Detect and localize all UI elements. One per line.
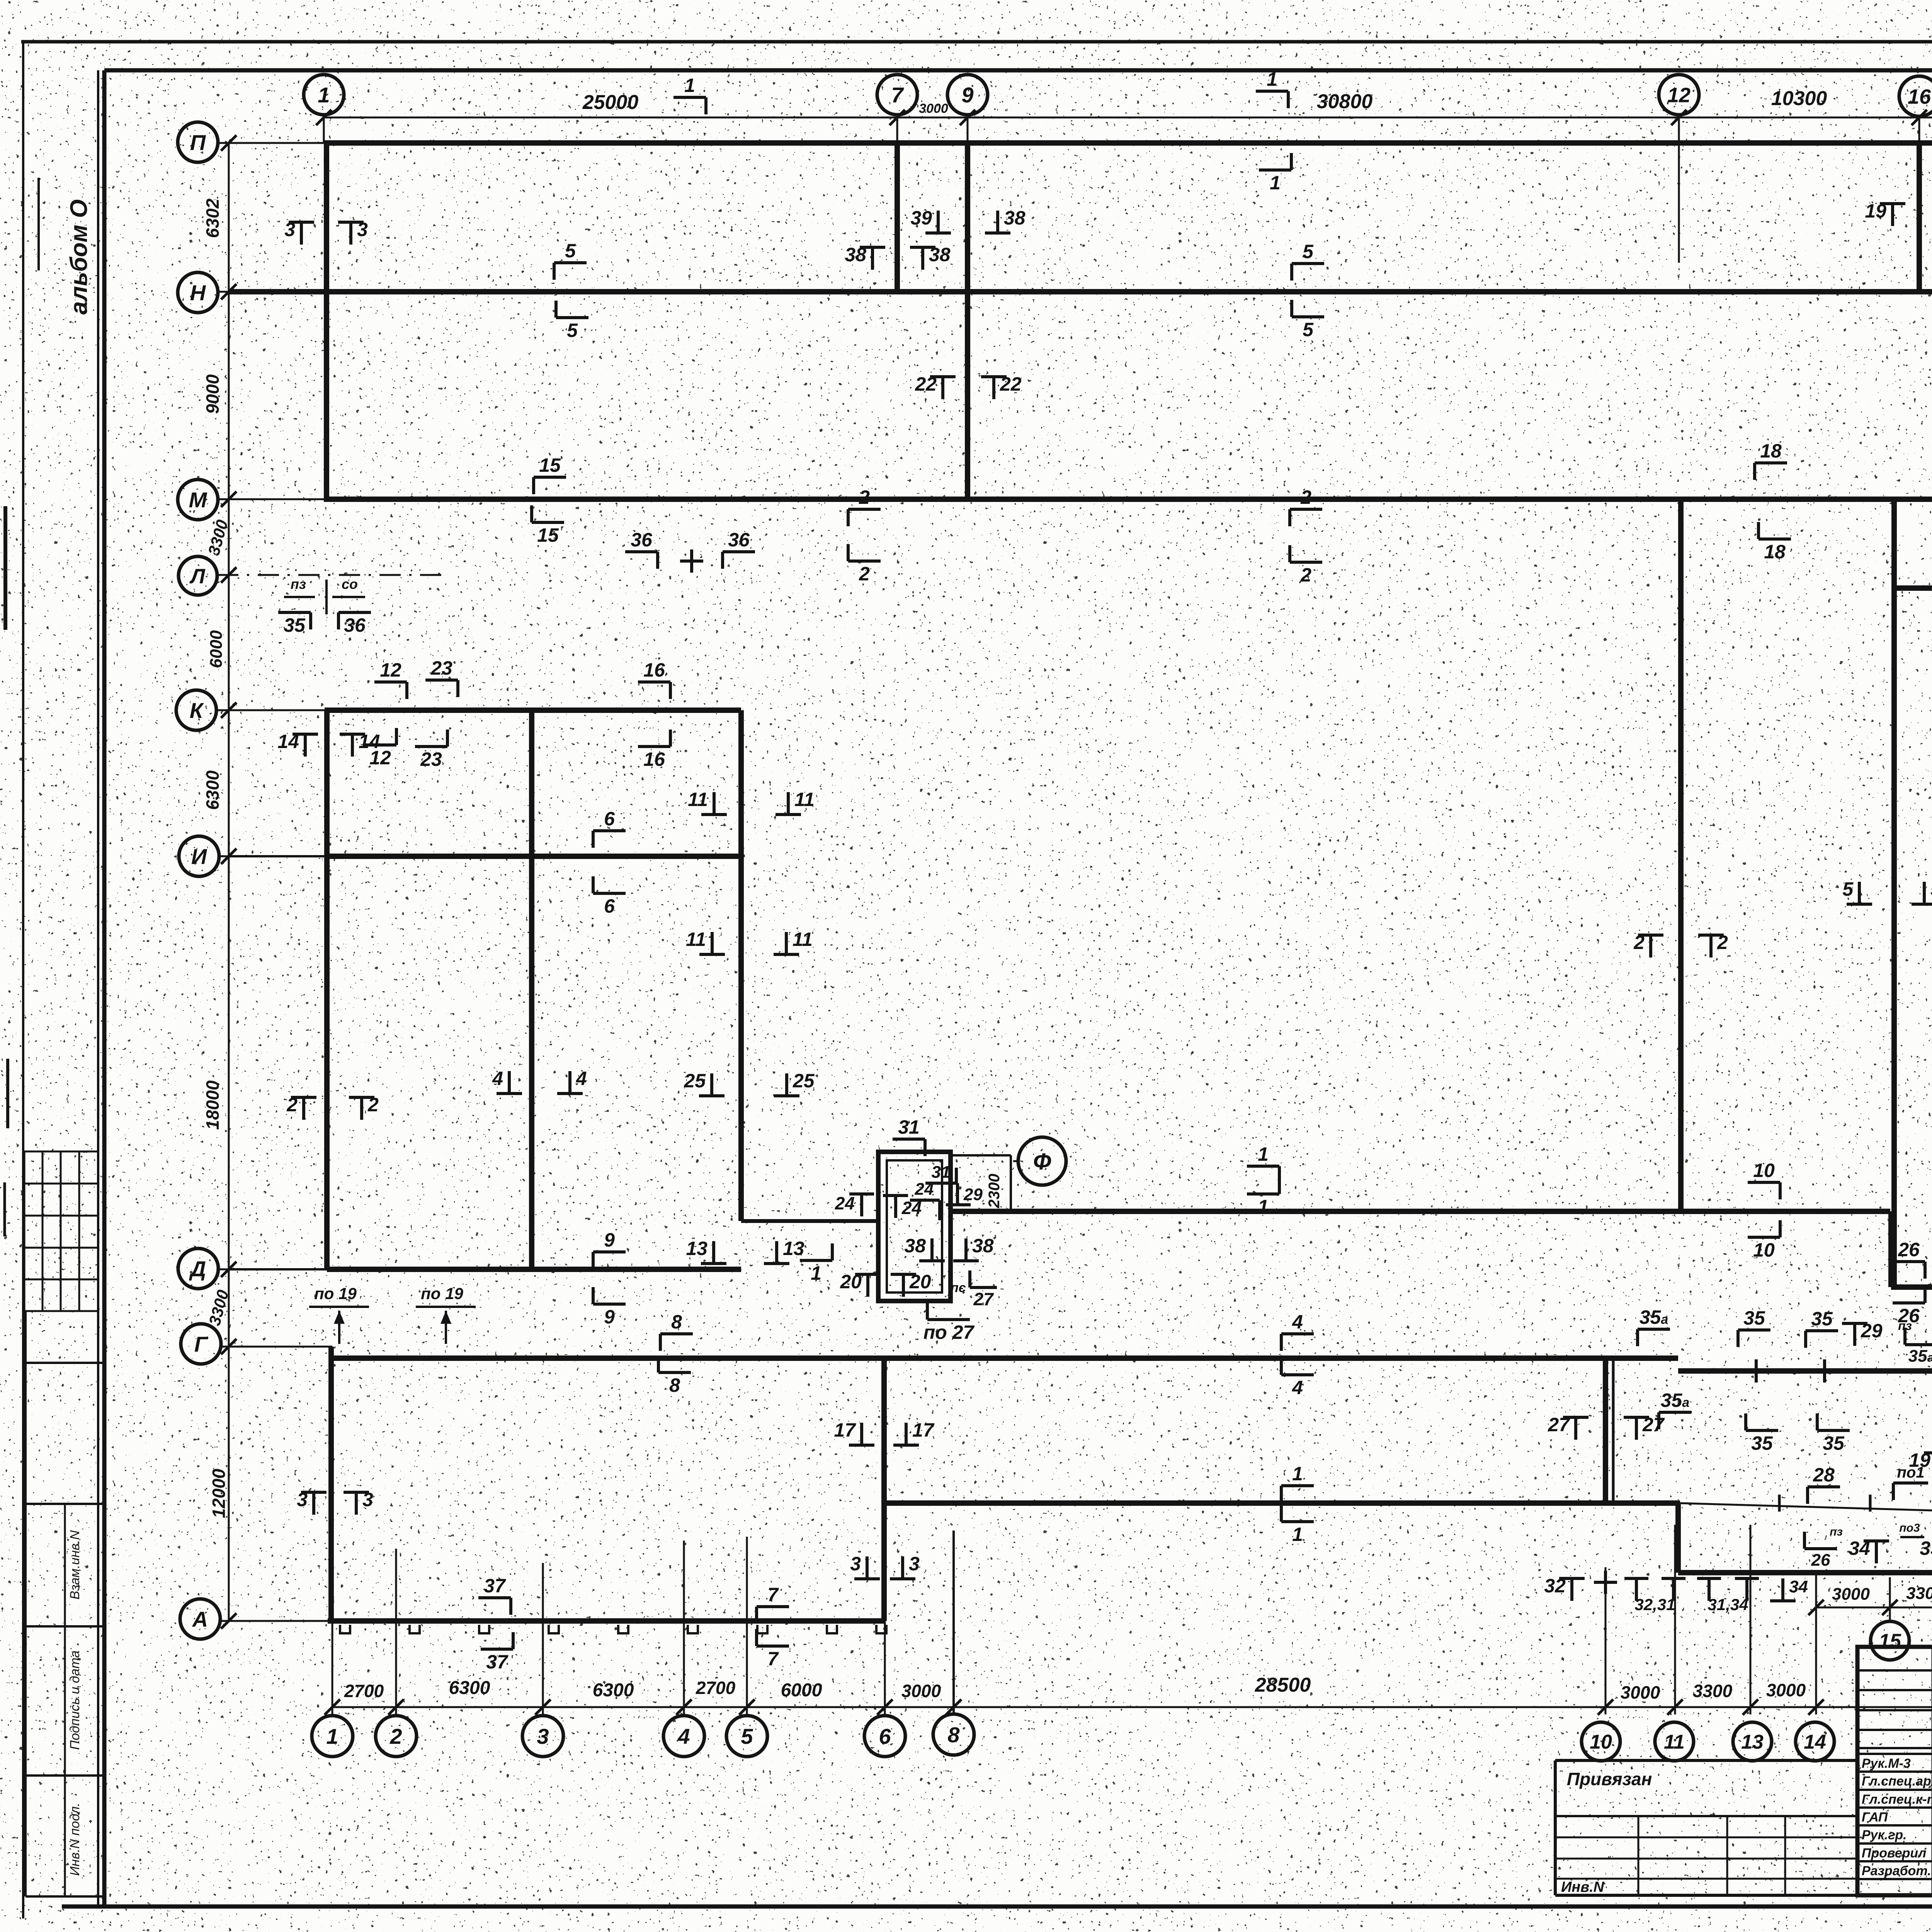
leader col 11 xyxy=(1674,1525,1676,1714)
svg-text:1: 1 xyxy=(1270,172,1281,194)
axis circle K left xyxy=(176,690,216,730)
svg-text:6000: 6000 xyxy=(781,1680,822,1701)
section pair 2 col12 xyxy=(1633,932,1663,957)
svg-text:38: 38 xyxy=(972,1235,994,1257)
section 37 above A xyxy=(478,1575,511,1615)
sheet top border xyxy=(21,40,1932,44)
section 8 below G left xyxy=(658,1355,691,1396)
section 29 pair xyxy=(1842,1320,1883,1346)
wall row N xyxy=(229,289,1932,294)
axis circle N left xyxy=(178,272,218,313)
svg-text:36: 36 xyxy=(728,529,750,551)
svg-text:20: 20 xyxy=(909,1271,931,1293)
svg-text:3300: 3300 xyxy=(1906,1584,1932,1603)
axis circle 12 top xyxy=(1659,75,1699,115)
svg-text:Взам.инв.N: Взам.инв.N xyxy=(68,1530,82,1600)
wall col 10 G-V xyxy=(1603,1358,1608,1503)
svg-text:31: 31 xyxy=(932,1163,951,1182)
section pair 25 x1918 xyxy=(684,1070,724,1096)
svg-text:17: 17 xyxy=(834,1419,856,1441)
svg-text:15: 15 xyxy=(1879,1630,1901,1653)
svg-text:3000: 3000 xyxy=(1621,1682,1660,1702)
svg-text:Гл.спец.к-т.: Гл.спец.к-т. xyxy=(1862,1792,1932,1807)
section cut 1 top (near 30800) xyxy=(1256,68,1288,108)
section 10 above E right xyxy=(1748,1160,1780,1199)
leader col 13 xyxy=(1750,1525,1752,1714)
svg-text:6302: 6302 xyxy=(202,198,223,238)
svg-text:3: 3 xyxy=(909,1553,920,1575)
svg-text:10: 10 xyxy=(1753,1239,1775,1261)
label по 27 below shaft xyxy=(923,1303,975,1343)
axis circle 6 bottom xyxy=(864,1716,905,1757)
svg-text:35: 35 xyxy=(284,614,306,636)
svg-text:17: 17 xyxy=(912,1419,935,1441)
section 31 inside shaft xyxy=(925,1163,956,1183)
svg-text:2700: 2700 xyxy=(696,1678,736,1698)
section 12 below K xyxy=(364,728,396,769)
svg-text:33: 33 xyxy=(1920,1537,1932,1559)
wall x1918 mid-block right xyxy=(738,710,744,1221)
svg-text:27: 27 xyxy=(1548,1414,1570,1435)
section 35/36 below L xyxy=(278,612,311,636)
section 19 near col18 xyxy=(1909,1449,1932,1475)
svg-text:3000: 3000 xyxy=(901,1681,941,1701)
svg-text:3: 3 xyxy=(362,1489,373,1510)
svg-text:4: 4 xyxy=(1292,1311,1303,1333)
axis circle 14 bottom xyxy=(1796,1722,1834,1761)
section 24 inside shaft xyxy=(910,1180,940,1220)
axis circle G left xyxy=(181,1324,221,1364)
section 1 above E xyxy=(1247,1143,1279,1183)
axis circle 11 bottom xyxy=(1655,1722,1694,1761)
wall col 1 lower xyxy=(328,1347,334,1621)
svg-text:Инв.N подл.: Инв.N подл. xyxy=(68,1803,82,1876)
shaft axis circle Ф xyxy=(1018,1137,1066,1185)
axis circle 13 bottom xyxy=(1733,1722,1772,1761)
wall jog at row E left xyxy=(741,1219,878,1223)
svg-text:Рук.гр.: Рук.гр. xyxy=(1862,1828,1907,1842)
svg-text:1: 1 xyxy=(684,75,695,96)
svg-text:2: 2 xyxy=(1300,564,1311,586)
section 34 single xyxy=(1770,1577,1808,1601)
wall row B xyxy=(1678,1570,1932,1575)
leader col 7 top xyxy=(896,115,898,143)
svg-text:38: 38 xyxy=(1004,207,1026,229)
svg-text:11: 11 xyxy=(688,789,708,810)
section 8 above G left xyxy=(660,1311,693,1351)
section pair 31,34 xyxy=(1697,1578,1759,1614)
svg-text:3: 3 xyxy=(297,1489,308,1510)
leader col 10 xyxy=(1605,1567,1607,1714)
wall col V-B connector xyxy=(1675,1503,1681,1573)
svg-text:Привязан: Привязан xyxy=(1567,1769,1652,1789)
svg-text:15: 15 xyxy=(537,524,559,546)
frame left inner double line xyxy=(97,70,99,1906)
svg-text:6000: 6000 xyxy=(207,630,226,668)
svg-text:9: 9 xyxy=(961,83,973,107)
svg-text:22: 22 xyxy=(915,373,937,395)
svg-text:23: 23 xyxy=(420,748,442,770)
axis row D thin part xyxy=(229,1268,328,1270)
frame top line xyxy=(104,68,1932,73)
section 23 below K xyxy=(415,730,447,770)
svg-text:11: 11 xyxy=(686,929,706,950)
section 1 above V xyxy=(1281,1463,1314,1503)
section pair 14 col1 below K xyxy=(277,731,318,757)
svg-text:14: 14 xyxy=(277,731,299,752)
section 31 above shaft xyxy=(893,1116,925,1156)
wall col 1 upper xyxy=(324,143,329,499)
svg-text:Л: Л xyxy=(189,565,206,588)
svg-text:12000: 12000 xyxy=(209,1469,229,1518)
col 8 line lower xyxy=(952,1531,955,1714)
section pair 22 col9 lower xyxy=(915,373,956,399)
sidebar stamp boxes xyxy=(24,1311,27,1896)
svg-text:3: 3 xyxy=(850,1553,861,1575)
section pair 38 col7 xyxy=(845,244,885,270)
axis row I thin part xyxy=(229,855,328,857)
svg-text:2700: 2700 xyxy=(344,1681,384,1701)
section pair 17 col6 xyxy=(834,1419,874,1445)
section 23 above K xyxy=(425,657,458,697)
crosses on G right wall xyxy=(1745,1359,1768,1383)
svg-text:25000: 25000 xyxy=(582,91,639,114)
svg-text:7: 7 xyxy=(767,1584,779,1605)
wall row G main xyxy=(331,1355,1678,1361)
section pair 27 col10 xyxy=(1548,1414,1588,1440)
section 5-5 below N mid xyxy=(1292,300,1324,340)
axis line I left leader xyxy=(218,855,328,857)
svg-text:39: 39 xyxy=(910,207,932,229)
leader col 14 xyxy=(1815,1573,1817,1714)
svg-text:10300: 10300 xyxy=(1771,87,1827,110)
section 32 below B with cross xyxy=(1544,1575,1585,1601)
svg-text:2: 2 xyxy=(1633,932,1645,953)
svg-text:1: 1 xyxy=(1292,1463,1303,1485)
svg-text:И: И xyxy=(191,844,207,869)
svg-text:16: 16 xyxy=(643,748,665,770)
svg-text:по 19: по 19 xyxy=(421,1284,463,1303)
svg-text:7: 7 xyxy=(891,83,904,107)
section pair 39/38 col9 xyxy=(910,207,951,233)
section 5-5 above N mid xyxy=(1292,241,1324,281)
leader col 12 top xyxy=(1678,115,1680,263)
svg-text:31,34: 31,34 xyxy=(1708,1595,1748,1614)
svg-text:13: 13 xyxy=(686,1238,707,1259)
svg-text:2300: 2300 xyxy=(986,1174,1003,1209)
wall row G right segment xyxy=(1678,1368,1932,1374)
wall col 7 xyxy=(895,143,900,292)
svg-text:13: 13 xyxy=(783,1238,804,1259)
svg-text:4: 4 xyxy=(677,1724,690,1748)
axis circle 1 top xyxy=(304,75,344,115)
svg-text:1: 1 xyxy=(318,83,330,107)
svg-text:16: 16 xyxy=(1908,85,1931,108)
svg-text:3: 3 xyxy=(357,219,368,240)
section 4 below G xyxy=(1281,1358,1314,1398)
section 29 right of shaft xyxy=(946,1183,983,1205)
svg-text:А: А xyxy=(192,1607,208,1631)
svg-text:1: 1 xyxy=(326,1724,338,1748)
section pair 3-3 col1 top xyxy=(284,219,314,245)
section cut 1 below P xyxy=(1259,153,1291,194)
section pair 19 col16 xyxy=(1865,200,1905,226)
sidebar small grid (registration table) xyxy=(24,1151,98,1153)
svg-text:по 19: по 19 xyxy=(314,1284,357,1303)
section 35 second row a xyxy=(1746,1413,1778,1454)
svg-text:12: 12 xyxy=(369,747,391,769)
axis line P left leader xyxy=(217,142,325,144)
anchor hooks below wall A xyxy=(340,1625,350,1633)
svg-text:пє: пє xyxy=(951,1281,966,1295)
section 15 above M xyxy=(534,454,566,494)
svg-text:1: 1 xyxy=(1292,1524,1303,1545)
svg-text:38: 38 xyxy=(904,1235,926,1257)
axis line K left leader xyxy=(216,709,328,711)
ticks on wall V xyxy=(1778,1495,1781,1512)
svg-text:5: 5 xyxy=(567,320,578,341)
svg-text:3300: 3300 xyxy=(1693,1681,1733,1701)
leader col 9 top xyxy=(967,115,969,143)
svg-text:26: 26 xyxy=(1898,1239,1920,1260)
svg-text:23: 23 xyxy=(430,657,452,679)
section pair 32,31 xyxy=(1624,1578,1685,1614)
section 7 below A xyxy=(757,1629,789,1670)
svg-text:37: 37 xyxy=(484,1575,506,1597)
svg-text:28500: 28500 xyxy=(1255,1674,1311,1696)
section 26 above B xyxy=(1804,1532,1837,1570)
section 5-5 below N xyxy=(556,301,588,341)
svg-text:30800: 30800 xyxy=(1317,90,1373,113)
wall x1376 mid-block xyxy=(529,710,534,1269)
wall col 12 xyxy=(1678,499,1684,1211)
svg-text:10: 10 xyxy=(1590,1731,1612,1753)
svg-text:Г: Г xyxy=(194,1332,209,1356)
axis circle 3 bottom xyxy=(522,1716,563,1757)
svg-text:Разработ.: Разработ. xyxy=(1862,1864,1931,1878)
svg-text:3000: 3000 xyxy=(919,101,948,116)
section 36-36 pair near L xyxy=(625,529,658,569)
svg-text:6300: 6300 xyxy=(449,1678,490,1698)
section 26 above D right xyxy=(1893,1239,1925,1279)
privyazan box xyxy=(1555,1759,1857,1762)
svg-text:35: 35 xyxy=(1811,1308,1833,1330)
wall x4902 (col 15 line) xyxy=(1891,499,1897,1287)
section 6 below I xyxy=(593,876,626,917)
section 28 above B xyxy=(1808,1464,1840,1504)
section 26 below D right xyxy=(1893,1286,1925,1327)
svg-text:6300: 6300 xyxy=(593,1680,634,1701)
svg-text:8: 8 xyxy=(669,1374,680,1396)
svg-text:3: 3 xyxy=(284,219,295,240)
svg-text:8: 8 xyxy=(947,1723,960,1747)
svg-text:7: 7 xyxy=(767,1648,779,1670)
wall row A xyxy=(328,1618,886,1624)
section 2 above M mid xyxy=(1290,486,1322,526)
svg-text:2: 2 xyxy=(389,1724,402,1748)
svg-text:36: 36 xyxy=(631,529,653,551)
section 35a marker xyxy=(1638,1306,1670,1346)
svg-text:Подпись и дата: Подпись и дата xyxy=(68,1650,82,1750)
frame bottom line xyxy=(62,1905,1932,1909)
svg-text:6300: 6300 xyxy=(202,770,223,810)
svg-text:Н: Н xyxy=(190,281,206,305)
section 1 right of 13 xyxy=(800,1243,832,1284)
svg-text:34: 34 xyxy=(1849,1537,1870,1559)
section 5-5 above N xyxy=(554,240,587,280)
section 35a second row xyxy=(1659,1389,1691,1429)
wall row D right segment xyxy=(1891,1284,1932,1290)
svg-text:2: 2 xyxy=(859,563,870,585)
svg-text:16: 16 xyxy=(643,659,665,681)
axis circle 1 bottom xyxy=(312,1716,353,1757)
svg-text:2: 2 xyxy=(286,1094,298,1116)
section 4 above G xyxy=(1281,1311,1314,1351)
leader col 1 bottom xyxy=(332,1621,333,1716)
svg-text:18000: 18000 xyxy=(202,1080,223,1130)
svg-text:27: 27 xyxy=(1642,1414,1665,1435)
section cut 1 top (near 25000) xyxy=(673,75,706,114)
svg-text:15: 15 xyxy=(539,454,561,476)
section pair 24 shaft left xyxy=(835,1193,874,1216)
wall col 6 xyxy=(881,1358,887,1621)
axis line V right thin xyxy=(1678,1503,1932,1518)
svg-text:18: 18 xyxy=(1764,541,1786,563)
axis line L dash-dot xyxy=(217,574,446,576)
section pair 3 col1 V xyxy=(297,1489,327,1515)
svg-text:26: 26 xyxy=(1811,1551,1830,1570)
svg-text:38: 38 xyxy=(929,244,951,265)
wall row P xyxy=(324,140,1932,146)
axis circle 9 top xyxy=(947,75,988,115)
axis circle 10 bottom xyxy=(1582,1722,1620,1761)
svg-text:4: 4 xyxy=(576,1068,587,1089)
svg-text:9000: 9000 xyxy=(202,374,223,414)
left dimension line xyxy=(228,143,230,1621)
section 7 above A xyxy=(757,1584,789,1624)
svg-text:24: 24 xyxy=(835,1193,855,1213)
svg-text:4: 4 xyxy=(492,1068,503,1089)
svg-text:5: 5 xyxy=(741,1724,753,1748)
axis line A left leader xyxy=(219,1620,328,1622)
svg-text:Проверил: Проверил xyxy=(1862,1846,1926,1861)
svg-text:12: 12 xyxy=(1667,83,1690,107)
section pair 11 upper xyxy=(688,789,727,815)
svg-text:18: 18 xyxy=(1760,440,1782,462)
wall row E long xyxy=(951,1209,1890,1214)
axis circle L left xyxy=(179,556,217,595)
svg-text:9: 9 xyxy=(604,1229,615,1251)
svg-text:К: К xyxy=(190,698,204,723)
leader col 4 xyxy=(683,1541,685,1716)
svg-text:13: 13 xyxy=(1741,1731,1764,1753)
svg-text:32: 32 xyxy=(1544,1575,1566,1597)
frame left line xyxy=(102,70,107,1906)
svg-text:3000: 3000 xyxy=(1832,1585,1870,1604)
section pair 3 col6 lower xyxy=(850,1553,880,1579)
svg-text:5: 5 xyxy=(1930,878,1932,900)
leader col 5 xyxy=(746,1537,748,1716)
section 1 below E xyxy=(1247,1177,1279,1218)
svg-text:Гл.спец.арх.: Гл.спец.арх. xyxy=(1862,1774,1932,1789)
section pair 20 shaft bottom xyxy=(840,1271,881,1297)
leader col 6 bottom xyxy=(884,1621,886,1716)
wall col 16 xyxy=(1917,143,1922,292)
svg-text:24: 24 xyxy=(915,1180,934,1199)
section pair 13 x1918 lower xyxy=(686,1238,726,1264)
svg-text:ГАП: ГАП xyxy=(1862,1810,1888,1825)
axis circle M left xyxy=(178,480,218,520)
section 18 below M right xyxy=(1759,522,1791,563)
svg-text:1: 1 xyxy=(1258,1143,1269,1165)
leader col 1 top xyxy=(323,115,325,143)
svg-text:20: 20 xyxy=(840,1271,862,1293)
svg-text:32,31: 32,31 xyxy=(1634,1595,1675,1614)
svg-text:Д: Д xyxy=(189,1257,206,1281)
wall col 1 mid-block xyxy=(324,710,330,1269)
leader col 15 xyxy=(1889,1577,1891,1621)
svg-text:11: 11 xyxy=(794,789,815,810)
dimension line cols 15-18 xyxy=(1816,1607,1932,1609)
svg-text:10: 10 xyxy=(1753,1160,1775,1181)
svg-text:27: 27 xyxy=(973,1289,994,1309)
axis circle 4 bottom xyxy=(663,1716,704,1757)
section 34 above B xyxy=(1849,1537,1889,1563)
section 16 below K xyxy=(638,730,670,770)
axis circle 2 bottom xyxy=(376,1716,417,1757)
title block outer xyxy=(1857,1647,1932,1895)
section 35 marker 2 xyxy=(1806,1308,1838,1348)
wall row V xyxy=(885,1500,1680,1506)
section pair 5 x4902 xyxy=(1842,878,1872,904)
svg-text:14: 14 xyxy=(1804,1731,1826,1753)
svg-text:36: 36 xyxy=(344,614,366,636)
shaft dim vertical 2300 xyxy=(1010,1155,1012,1211)
svg-text:Ф: Ф xyxy=(1033,1149,1051,1175)
svg-text:35: 35 xyxy=(1751,1432,1773,1454)
svg-text:34: 34 xyxy=(1789,1577,1808,1596)
svg-text:Инв.N: Инв.N xyxy=(1561,1879,1605,1895)
axis line D left leader xyxy=(217,1269,328,1270)
axis line N left leader xyxy=(217,291,327,293)
section 15 below M xyxy=(532,505,564,546)
bottom dimension line xyxy=(332,1706,1932,1708)
svg-text:5: 5 xyxy=(1303,241,1314,262)
wall col 10 double line xyxy=(1612,1358,1615,1503)
axis circle 16 top xyxy=(1899,76,1932,116)
svg-text:35: 35 xyxy=(1743,1307,1765,1329)
section 37 below A xyxy=(481,1632,513,1673)
section 2 above M left xyxy=(848,486,881,526)
svg-text:38: 38 xyxy=(845,244,866,265)
svg-text:5: 5 xyxy=(1842,878,1854,900)
svg-text:2: 2 xyxy=(859,486,870,508)
svg-text:П: П xyxy=(190,130,206,155)
svg-text:8: 8 xyxy=(671,1311,682,1333)
axis circle 7 top xyxy=(877,75,917,115)
wall x4894 E-D xyxy=(1888,1211,1894,1287)
axis circle 5 bottom xyxy=(726,1716,767,1757)
section 12 above K xyxy=(374,659,407,699)
svg-text:22: 22 xyxy=(1000,373,1022,395)
section pair 4 x1376 xyxy=(492,1068,522,1094)
svg-text:2: 2 xyxy=(367,1094,379,1116)
svg-text:5: 5 xyxy=(1303,319,1314,340)
svg-text:3: 3 xyxy=(537,1724,549,1748)
axis line G left leader xyxy=(219,1346,332,1348)
section 2 below M left xyxy=(848,544,881,585)
section 6 above I xyxy=(593,808,626,848)
